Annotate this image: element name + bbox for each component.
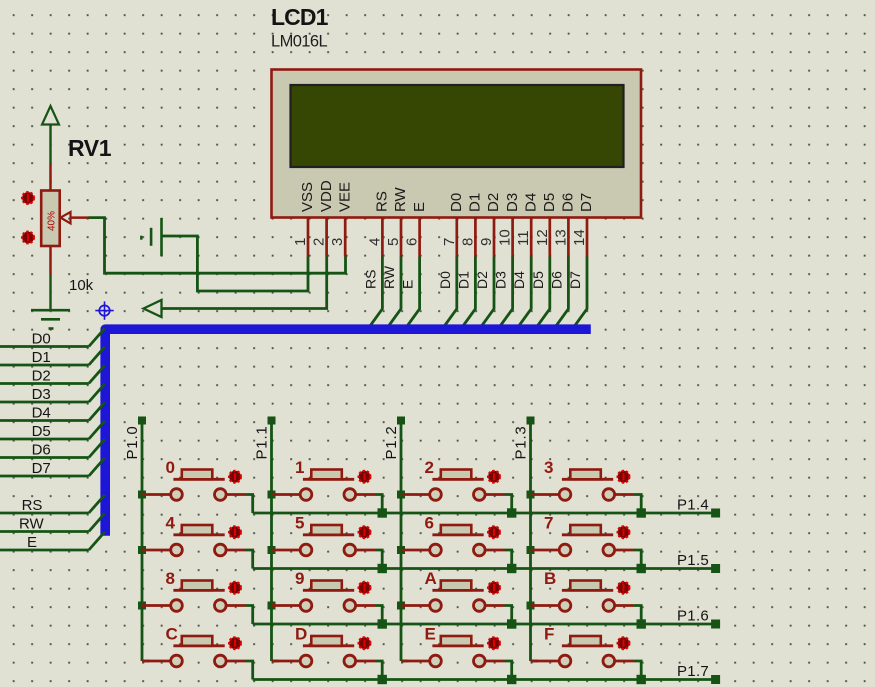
LCD1 pin names VSS VDD VEE RS RW E D0-D7 [299,180,595,212]
svg-text:7: 7 [544,514,553,533]
svg-text:5: 5 [385,238,402,246]
LCD module LCD1 body [272,70,642,218]
svg-text:RW: RW [392,186,409,212]
wires pins 4-14 to bus with net labels RS RW E D0-D7 [362,257,587,328]
ground symbol [31,310,70,328]
svg-text:LM016L: LM016L [271,32,327,50]
keypad row wire net P1.7 [253,663,720,684]
svg-text:D1: D1 [467,193,484,212]
svg-text:10k: 10k [69,277,94,294]
svg-text:14: 14 [571,229,588,246]
svg-text:8: 8 [459,238,476,246]
svg-text:D2: D2 [485,193,502,212]
wire button B to row wire [634,606,641,625]
wire button A to row wire [505,606,512,625]
pushbutton 6 [397,514,505,556]
wire button C to row wire [246,661,253,680]
svg-text:1: 1 [292,238,309,246]
value label LM016L [271,32,327,50]
svg-text:E: E [400,280,416,289]
wire button 8 to row wire [246,606,253,625]
wire button 5 to row wire [375,550,382,569]
svg-text:B: B [544,569,556,588]
keypad column net P1.0 [124,417,146,662]
svg-text:D3: D3 [493,271,509,289]
pushbutton 7 [527,514,635,556]
svg-text:13: 13 [552,229,569,246]
pushbutton 0 [138,458,246,500]
svg-text:D1: D1 [32,349,51,366]
svg-text:D6: D6 [560,193,577,212]
label RV1 [68,135,112,161]
svg-text:2: 2 [311,238,328,246]
svg-text:E: E [425,625,436,644]
svg-text:P1.1: P1.1 [254,425,271,459]
svg-text:RW: RW [381,265,397,289]
svg-text:LCD1: LCD1 [271,4,329,30]
pushbutton B [527,569,635,611]
svg-text:P1.6: P1.6 [677,608,709,625]
svg-text:P1.4: P1.4 [677,497,709,514]
LCD1 pin numbers 1-14 [292,229,588,246]
svg-text:A: A [425,569,437,588]
svg-text:P1.2: P1.2 [383,425,400,459]
wire button 6 to row wire [505,550,512,569]
input terminal arrow to VDD [144,300,162,317]
svg-text:7: 7 [441,238,458,246]
wire battery to pin 1 VSS [162,236,309,291]
RV1 wiper arrow [61,212,89,224]
svg-text:VEE: VEE [336,182,353,212]
svg-text:4: 4 [166,514,176,533]
svg-text:P1.7: P1.7 [677,663,709,680]
battery cell B1 [141,218,161,256]
svg-text:40%: 40% [47,211,58,231]
origin marker crosshair [95,301,113,319]
svg-text:RS: RS [22,497,43,514]
svg-text:D2: D2 [32,368,51,385]
svg-text:D: D [295,625,307,644]
RV1 bottom pin wire [49,246,52,310]
svg-text:RV1: RV1 [68,135,112,161]
RV1 clickable red dots [22,192,34,243]
svg-text:D0: D0 [32,331,51,348]
wire button 3 to row wire [634,495,641,514]
pushbutton 8 [138,569,246,611]
LCD1 pin stubs 1-14 [308,218,587,257]
svg-text:RW: RW [19,516,45,533]
svg-text:D4: D4 [511,271,527,289]
svg-text:E: E [27,534,37,551]
pushbutton 4 [138,514,246,556]
wire button 1 to row wire [375,495,382,514]
wire RV1 wiper to pin 3 VEE [89,218,346,274]
svg-text:C: C [166,625,178,644]
potentiometer RV1 body [41,164,60,247]
svg-text:3: 3 [544,458,553,477]
svg-text:4: 4 [366,238,383,246]
svg-text:0: 0 [166,458,175,477]
svg-text:D5: D5 [541,193,558,212]
wire button F to row wire [634,661,641,680]
svg-text:8: 8 [166,569,175,588]
bus entry wires D0-D7 [0,328,105,477]
svg-text:P1.3: P1.3 [513,425,530,459]
svg-text:D0: D0 [448,193,465,212]
wire button 9 to row wire [375,606,382,625]
svg-text:VSS: VSS [299,182,316,212]
svg-text:VDD: VDD [318,180,335,212]
keypad row wire net P1.6 [253,608,720,629]
value label 10k [69,277,94,294]
svg-text:D2: D2 [474,271,490,289]
svg-text:11: 11 [515,230,532,246]
keypad row wire net P1.4 [253,497,720,518]
wire button 4 to row wire [246,550,253,569]
wire button E to row wire [505,661,512,680]
svg-text:D5: D5 [32,423,51,440]
svg-text:3: 3 [329,238,346,246]
svg-text:D3: D3 [504,193,521,212]
svg-text:P1.5: P1.5 [677,552,709,569]
wire button D to row wire [375,661,382,680]
svg-text:12: 12 [534,229,551,246]
svg-text:5: 5 [295,514,304,533]
pushbutton F [531,625,635,667]
svg-text:F: F [544,625,554,644]
bus entry wires RS RW E [0,495,105,551]
keypad column net P1.3 [513,417,535,662]
svg-text:D4: D4 [522,193,539,212]
wire button 7 to row wire [634,550,641,569]
pushbutton 2 [397,458,505,500]
wire terminal to pin 2 VDD [162,257,327,309]
svg-text:9: 9 [478,238,495,246]
pushbutton 9 [268,569,376,611]
svg-text:D4: D4 [32,405,51,422]
svg-text:10: 10 [497,229,514,246]
LCD1 screen [291,85,624,167]
svg-text:D5: D5 [530,271,546,289]
pushbutton D [272,625,376,667]
keypad row wire net P1.5 [253,552,720,573]
svg-text:6: 6 [425,514,434,533]
svg-text:2: 2 [425,458,434,477]
svg-text:D7: D7 [578,193,595,212]
svg-text:6: 6 [404,238,421,246]
svg-text:D0: D0 [437,271,453,289]
svg-text:D7: D7 [32,460,51,477]
keypad column net P1.1 [254,417,276,662]
pushbutton 5 [268,514,376,556]
svg-text:D7: D7 [567,271,583,289]
wire button 2 to row wire [505,495,512,514]
pushbutton 3 [527,458,635,500]
svg-text:D3: D3 [32,386,51,403]
svg-text:RS: RS [374,191,391,212]
keypad column net P1.2 [383,417,405,662]
pushbutton C [142,625,246,667]
wire button 0 to row wire [246,495,253,514]
svg-text:D6: D6 [548,271,564,289]
svg-text:E: E [411,202,428,212]
svg-text:P1.0: P1.0 [124,425,141,459]
power terminal arrow above RV1 [42,106,59,164]
bus (blue) [105,329,591,536]
svg-text:D6: D6 [32,442,51,459]
svg-text:1: 1 [295,458,304,477]
svg-text:9: 9 [295,569,304,588]
pushbutton E [401,625,505,667]
pushbutton 1 [268,458,376,500]
label LCD1 [271,4,329,30]
svg-text:RS: RS [362,270,378,289]
svg-text:D1: D1 [455,271,471,289]
pushbutton A [397,569,505,611]
